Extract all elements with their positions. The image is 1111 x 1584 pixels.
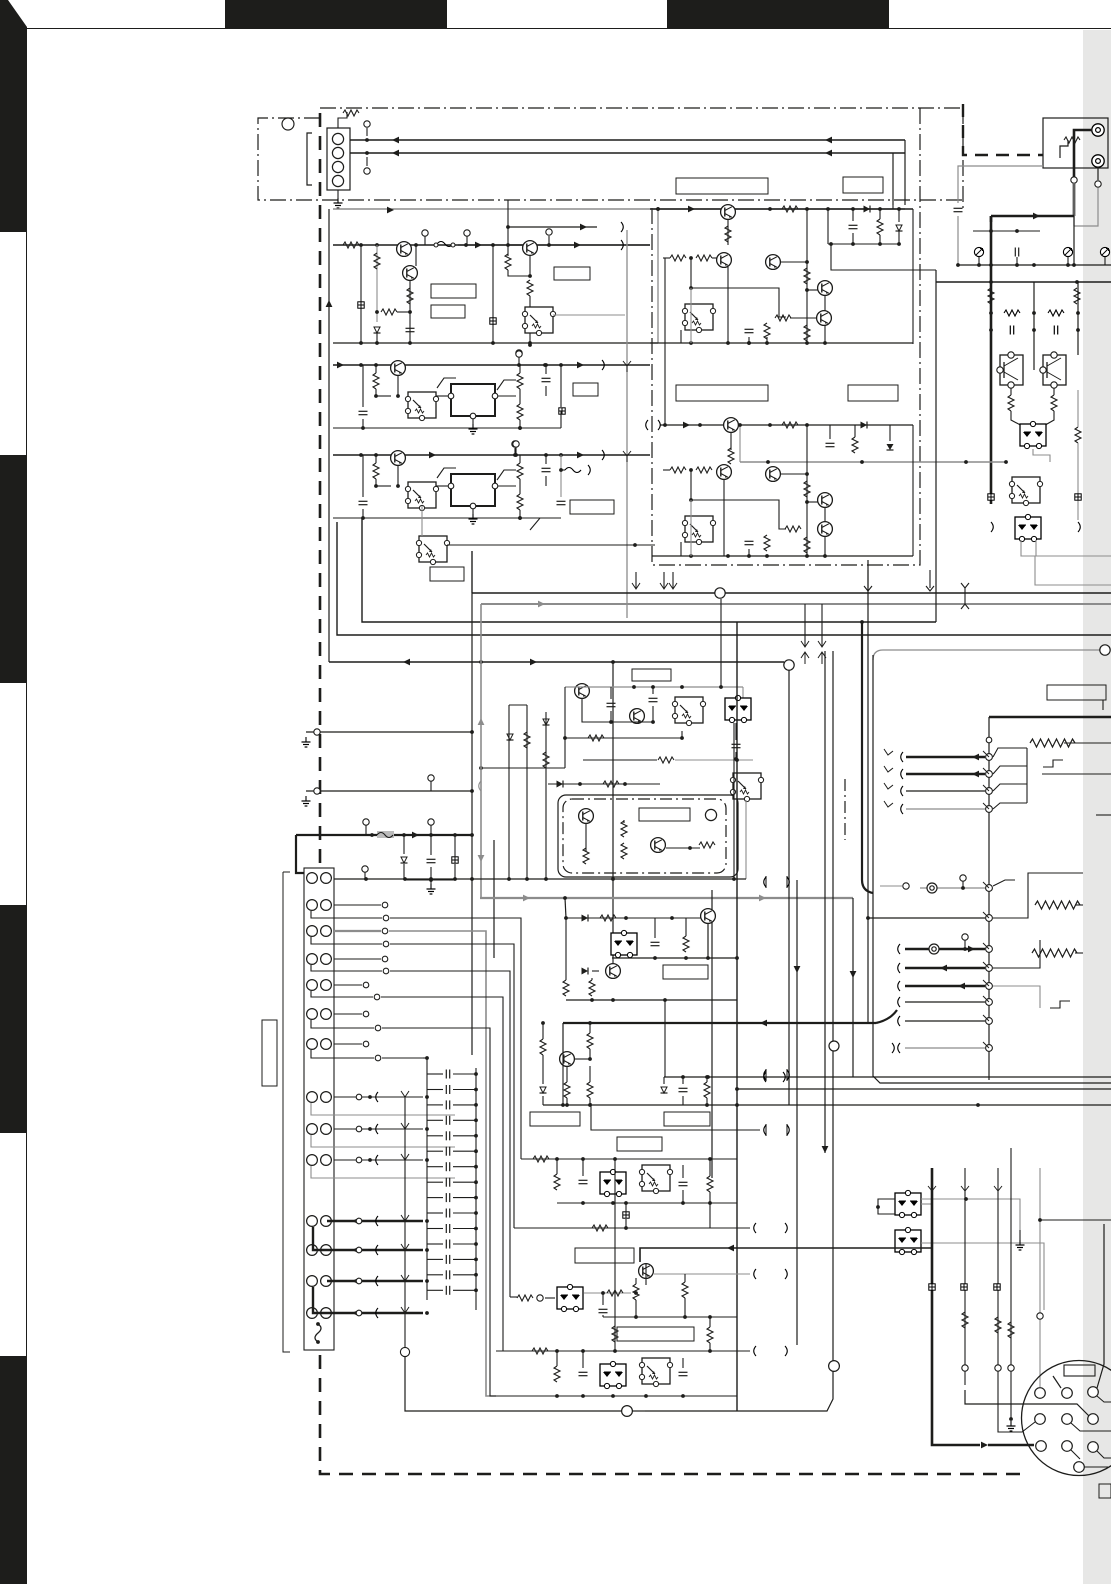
top-right net rail bbox=[958, 264, 1111, 266]
bold wire from J1 bbox=[1074, 130, 1092, 216]
CN2 squiggle bbox=[315, 1324, 321, 1342]
step symbol top bbox=[1043, 760, 1063, 767]
opto U1 bbox=[522, 307, 555, 336]
gnd line y791 bbox=[302, 796, 311, 806]
servo box top bbox=[873, 650, 1100, 660]
net row3b bbox=[311, 937, 382, 944]
transistor Q22 bbox=[639, 1264, 654, 1279]
net DE bbox=[584, 1292, 631, 1294]
label box L14b bbox=[664, 1112, 710, 1126]
rail y1317 bbox=[603, 1316, 737, 1318]
Y hops x405 bbox=[401, 1091, 409, 1102]
net row7b bbox=[311, 1050, 374, 1058]
diode D2 bbox=[864, 206, 871, 213]
step symbol bbox=[1050, 1001, 1070, 1008]
bus right arrows bbox=[825, 137, 832, 144]
dpair DB bbox=[895, 1227, 921, 1254]
cap C22 bbox=[745, 329, 754, 332]
feed terminals bbox=[363, 819, 369, 825]
diode D13 bbox=[543, 719, 550, 725]
res R33 bbox=[670, 467, 686, 473]
bold pin feed r11 bbox=[327, 1220, 423, 1222]
coil R70b bbox=[1030, 739, 1075, 747]
edge marks bbox=[1096, 814, 1111, 816]
res R45 bbox=[517, 463, 523, 479]
CN2 pin pair row 2 bbox=[307, 900, 318, 911]
edge rail line bbox=[1083, 872, 1111, 874]
transistor Q6 bbox=[766, 255, 781, 270]
gnd near DIN bbox=[1009, 1417, 1013, 1421]
rail arrow2 bbox=[574, 242, 581, 249]
res R13 bbox=[505, 254, 511, 270]
res R66 bbox=[540, 1039, 546, 1055]
net DA right bbox=[921, 1199, 1020, 1230]
transistor Q10 bbox=[717, 465, 732, 480]
dash-dot rounded box mid-left bbox=[558, 795, 738, 877]
rail gap marks bbox=[646, 420, 648, 430]
label box L4 bbox=[676, 178, 768, 194]
terminal pair below jack box bbox=[1071, 177, 1077, 183]
CN2 pin pair row 14 bbox=[307, 1308, 318, 1319]
CN2 pin pair row 5 bbox=[307, 980, 318, 991]
center vert x862 bbox=[861, 622, 863, 880]
cluster1 bottom rail bbox=[333, 342, 658, 344]
row y313 res b bbox=[1048, 310, 1064, 316]
dash-dot box2 frame bbox=[652, 108, 920, 565]
c2 verticals bbox=[824, 295, 826, 311]
res R11 bbox=[343, 242, 359, 248]
page border top bbox=[26, 28, 1111, 30]
gnd line y732 bbox=[302, 737, 311, 747]
bold pin feed r14 bbox=[313, 1287, 423, 1313]
right hooks mid bbox=[993, 940, 1040, 968]
opto U5 bbox=[405, 482, 438, 511]
cap C43 bbox=[542, 468, 551, 471]
res R87 bbox=[554, 1366, 560, 1382]
transistor Q5 bbox=[717, 253, 732, 268]
zener Z5 bbox=[507, 734, 514, 740]
cap C32 bbox=[745, 541, 754, 544]
gray link to right bbox=[831, 244, 936, 270]
res R43 bbox=[517, 373, 523, 389]
osc circle bbox=[705, 809, 716, 820]
mid verticals bbox=[471, 551, 473, 593]
vert x710b bbox=[709, 1192, 711, 1228]
pot slash c3b bbox=[497, 380, 516, 390]
DIN pin 1 bbox=[1035, 1388, 1046, 1399]
row y330 cap a bbox=[1010, 326, 1013, 335]
diode D5 bbox=[887, 444, 894, 450]
Y hop c3 bbox=[623, 361, 631, 372]
terminal t1 bbox=[422, 230, 428, 236]
circle drop x722 bbox=[720, 599, 722, 687]
res R86 bbox=[707, 1327, 713, 1343]
varistor a bbox=[974, 247, 983, 256]
transistor Q20 bbox=[701, 909, 716, 924]
res v1 bbox=[988, 288, 994, 304]
wire J2 down bbox=[1097, 167, 1099, 180]
fuse F2 bbox=[377, 831, 394, 838]
mid rail y604 bbox=[481, 603, 1111, 605]
label box L16 bbox=[575, 1248, 634, 1263]
terminal y444 bbox=[513, 441, 519, 447]
cluster2 top rail bbox=[650, 208, 913, 210]
c2b verticals bbox=[824, 507, 826, 522]
opto U8 bbox=[730, 773, 763, 802]
wire c2b bbox=[691, 470, 786, 529]
cluster2 bottom rail bbox=[650, 342, 913, 344]
registration bar left segment 2 bbox=[0, 455, 27, 683]
hooks right top bbox=[993, 748, 1027, 757]
pin stub y1021 bbox=[905, 1020, 985, 1022]
dash-dot frame top bbox=[320, 107, 963, 109]
connector CN601 pin 2 bbox=[332, 147, 343, 158]
res R57 bbox=[524, 732, 530, 748]
registration bar top segment 1 bbox=[225, 0, 447, 28]
block box bbox=[645, 1150, 833, 1411]
RCA jack J2 bbox=[1092, 155, 1104, 167]
mid rail y622 bbox=[362, 518, 936, 622]
rail y898 bold bbox=[480, 897, 853, 899]
col ends bbox=[991, 522, 993, 532]
nets capladder rows bbox=[311, 1103, 455, 1115]
terminal y354 bbox=[516, 351, 522, 357]
opto DD bbox=[639, 1165, 672, 1194]
cap mid bbox=[1015, 248, 1018, 257]
terminal t3 bbox=[546, 229, 552, 235]
label box L14c bbox=[617, 1137, 662, 1151]
jack box bbox=[1043, 118, 1108, 168]
transistor Q2 bbox=[403, 266, 418, 281]
transistor Q15 bbox=[391, 451, 406, 466]
center vert x789 bbox=[788, 670, 790, 1105]
CN2 pin pair row 7 bbox=[307, 1039, 318, 1050]
pin stub y1048 bbox=[905, 1047, 985, 1049]
opto U3 bbox=[682, 516, 715, 545]
vert x563 mid bbox=[562, 1023, 564, 1105]
cap ladder verticals bbox=[426, 1058, 428, 1300]
center rail y1077 bbox=[664, 1076, 1111, 1078]
diode D4 bbox=[861, 422, 868, 429]
transistor Q7b bbox=[818, 281, 833, 296]
cap C81 bbox=[679, 1182, 688, 1185]
osc sub rail bbox=[582, 699, 653, 722]
label box L3 bbox=[554, 267, 590, 280]
res R56 bbox=[658, 757, 674, 763]
registration bar top segment 2 bbox=[667, 0, 889, 28]
transistor Q9 bbox=[724, 418, 739, 433]
res v2 bbox=[1074, 288, 1080, 304]
CN601 top lead with ferrite bbox=[338, 112, 347, 128]
wire dpair down bbox=[1033, 449, 1050, 462]
osc wires bbox=[585, 823, 587, 852]
vert x658 c1 bbox=[657, 209, 659, 343]
Q3 chain bbox=[529, 255, 531, 276]
res R85b bbox=[682, 1282, 688, 1298]
gnd c4 bbox=[472, 509, 474, 514]
label right small bbox=[1099, 1484, 1111, 1498]
CN2 pin pair row 3 bbox=[307, 926, 318, 937]
label box L2 bbox=[431, 305, 465, 318]
transistor Q12 bbox=[818, 493, 833, 508]
diode D14 bbox=[582, 915, 589, 922]
xsq marks bbox=[988, 494, 994, 500]
ground below CN601 bbox=[337, 190, 339, 198]
zener X1 bbox=[623, 1212, 629, 1218]
RCA jack J1 bbox=[1092, 124, 1104, 136]
transistor Q19 bbox=[651, 838, 666, 853]
diode D11 bbox=[401, 857, 408, 863]
bold feed y835 bbox=[296, 834, 472, 836]
dpair DF bbox=[600, 1361, 626, 1388]
dpair D15 bbox=[611, 930, 637, 957]
mid rail y593 bbox=[472, 592, 1111, 594]
transistor Q22c bbox=[560, 1052, 575, 1067]
mid vert x613 bbox=[612, 662, 614, 958]
dpair DA bbox=[895, 1190, 921, 1217]
res R61 bbox=[600, 915, 616, 921]
center vert x833 bbox=[832, 651, 834, 1150]
power transistor Q8 box bbox=[1043, 355, 1066, 385]
zener Z6 bbox=[540, 1087, 547, 1093]
thin left margin line bbox=[283, 872, 290, 1352]
main rail1 y245 bbox=[333, 244, 650, 246]
tails y593 bbox=[635, 572, 637, 588]
pin stub bold y757 bbox=[906, 756, 985, 759]
DIN pin 7 bbox=[1036, 1441, 1047, 1452]
cap C57 bbox=[732, 744, 741, 747]
label box L8 bbox=[573, 383, 598, 396]
wires into DIN a bbox=[965, 1390, 1089, 1416]
vert w3 bbox=[1010, 1148, 1012, 1400]
right drop c2 bbox=[912, 209, 914, 344]
opto U6 bbox=[416, 536, 449, 565]
diode D3 bbox=[896, 225, 903, 231]
bus wire R-ch bbox=[350, 152, 905, 154]
res R70 bbox=[704, 1082, 710, 1098]
vert x734 bbox=[733, 723, 735, 879]
gray rail y462 bbox=[740, 461, 1006, 463]
cluster2b bottom rail bbox=[652, 555, 913, 557]
big junction circle bbox=[622, 1406, 633, 1417]
rail y918c bbox=[566, 917, 701, 919]
xsq F3 bbox=[452, 857, 458, 863]
pin stub wire y918 bbox=[868, 917, 985, 919]
long rail y282 bbox=[936, 281, 1111, 283]
res R83 bbox=[554, 1174, 560, 1190]
xsq c3 bbox=[559, 408, 565, 414]
gray wire from jack box left bbox=[958, 166, 1043, 203]
rail y879 bbox=[334, 878, 746, 880]
label box L5 bbox=[843, 177, 883, 193]
mount hole circle bbox=[282, 118, 294, 130]
c2b right vert bbox=[912, 425, 914, 556]
pot slash c4a bbox=[437, 468, 456, 478]
fork stubs x805 x822 bbox=[804, 604, 806, 646]
lower rail y425 bbox=[660, 424, 913, 426]
brk pairs center2 bbox=[765, 1069, 767, 1081]
pin stub y809 gray bbox=[906, 808, 985, 810]
center rail y1105 bbox=[543, 1104, 1111, 1106]
transistor Q18 bbox=[579, 809, 594, 824]
center vert x825 bbox=[824, 651, 826, 1153]
terminal y353 bbox=[516, 350, 522, 356]
CN2 pin pair row 13 bbox=[307, 1276, 318, 1287]
pin stub bold y774 bbox=[906, 773, 985, 776]
hybrid IC block2 bbox=[451, 474, 495, 506]
transistor Q11 bbox=[766, 467, 781, 482]
rail y1203 bbox=[557, 1202, 737, 1204]
cap C51 bbox=[427, 859, 436, 862]
label box L9 bbox=[570, 500, 614, 514]
rail y1228 bbox=[514, 1227, 750, 1229]
gnd feed bbox=[404, 879, 455, 881]
label box L17 bbox=[617, 1327, 694, 1341]
varistor c bbox=[1100, 247, 1109, 256]
cap C31 bbox=[826, 443, 835, 446]
transistor Q16 bbox=[575, 684, 590, 699]
net DB right bbox=[921, 1243, 1044, 1310]
center vert x712 bbox=[711, 890, 713, 1178]
mid wires c2 bbox=[691, 258, 786, 317]
wire right trunk2 bbox=[1073, 216, 1075, 265]
res R63 bbox=[683, 936, 689, 952]
CN2 pin pair row 12 bbox=[307, 1245, 318, 1256]
res R41 bbox=[373, 373, 379, 389]
pot slash c3a bbox=[437, 378, 456, 388]
wires into DIN b bbox=[998, 1390, 1035, 1432]
Y hop c4 bbox=[623, 451, 631, 462]
cap C56 bbox=[649, 698, 658, 701]
mid rail y662 bbox=[329, 661, 784, 663]
diode pair D8 bbox=[1015, 514, 1041, 541]
row y313 res a bbox=[1004, 310, 1020, 316]
label box L12 bbox=[639, 808, 690, 821]
tall rect right bbox=[993, 873, 1083, 918]
res R31 bbox=[782, 422, 798, 428]
vert x683b bbox=[682, 1190, 684, 1203]
wire y1130 bbox=[591, 1103, 760, 1130]
CN2 stub wires bbox=[334, 904, 381, 906]
bus stub terminals bbox=[364, 121, 370, 127]
DIN pin 3 bbox=[1088, 1387, 1099, 1398]
cluster1 frame bbox=[333, 208, 905, 210]
net row3 bold bbox=[334, 930, 381, 932]
wires into DIN c bbox=[1053, 1376, 1061, 1388]
brk pairs center bbox=[765, 876, 767, 888]
pot slash c4b bbox=[497, 470, 516, 480]
opto IC1 bbox=[1009, 477, 1042, 506]
res R32 bbox=[852, 437, 858, 453]
label box L14a bbox=[530, 1112, 580, 1126]
emitter res Q8 bbox=[1053, 388, 1055, 395]
brk pairs center3 bbox=[765, 1124, 767, 1136]
pin stub y1002 bbox=[905, 1001, 985, 1003]
res R12 bbox=[381, 309, 397, 315]
sub wires c1 bbox=[376, 245, 378, 322]
center rail y1023 bold bbox=[563, 1022, 876, 1024]
xsq bottom bbox=[929, 1284, 935, 1290]
varistor b bbox=[1063, 247, 1072, 256]
res R69 bbox=[587, 1082, 593, 1098]
thin net r9 bbox=[334, 1128, 423, 1130]
junction Y x965 bbox=[964, 588, 966, 604]
res R67 bbox=[587, 1033, 593, 1049]
right page gray strip bbox=[1083, 30, 1111, 1584]
pin stub shield1 bbox=[920, 887, 985, 889]
vert w2 bbox=[997, 1168, 999, 1390]
cap C83 bbox=[679, 1372, 688, 1375]
DIN pin 9 bbox=[1088, 1442, 1099, 1453]
DIN pin 8 bbox=[1062, 1441, 1073, 1452]
vert x565 osc bbox=[564, 687, 566, 768]
mid rail y635 bbox=[337, 522, 1111, 635]
vert x665 bbox=[664, 258, 666, 425]
wire cont bbox=[632, 1410, 645, 1412]
bracket left of CN601 bbox=[307, 133, 312, 185]
DIN pin 6 bbox=[1088, 1414, 1099, 1425]
dpair D10 bbox=[725, 695, 751, 722]
ladder top hook bbox=[425, 1056, 429, 1060]
brk y1274 bbox=[754, 1269, 756, 1279]
opto U10 bbox=[639, 1358, 672, 1387]
res R34 bbox=[764, 535, 770, 551]
vert x472 bbox=[471, 551, 473, 1055]
label box L6 bbox=[676, 385, 768, 401]
dash-dot vertical right of top block bbox=[962, 108, 964, 208]
hybrid IC block1 bbox=[451, 384, 495, 416]
center vert x853 bbox=[852, 898, 854, 1077]
rail y1351 bbox=[496, 1350, 750, 1352]
cap C63 bbox=[679, 1088, 688, 1091]
res R22 bbox=[877, 219, 883, 235]
bold trunk vertical bbox=[990, 216, 993, 504]
bold wire top-right trunk bbox=[991, 215, 1074, 218]
res R44 bbox=[517, 404, 523, 420]
connector CN601 outline bbox=[327, 128, 350, 190]
cluster1 left vert bbox=[328, 209, 330, 662]
vert x479 gray bbox=[480, 604, 482, 898]
CN2 pin pair row 11 bbox=[307, 1216, 318, 1227]
col wires bbox=[990, 282, 992, 355]
res R21 bbox=[782, 206, 798, 212]
wire y227 bbox=[508, 226, 597, 228]
net row5b bbox=[311, 991, 373, 997]
fuse F1 bbox=[437, 242, 453, 247]
label box L11 bbox=[632, 669, 671, 681]
vert x627 gray bbox=[626, 230, 628, 618]
center vert x665 bbox=[664, 1000, 666, 1077]
label box vertical left bbox=[262, 1020, 277, 1086]
c1 right wires bbox=[553, 314, 625, 316]
net row2 bbox=[311, 911, 382, 918]
hang rail bbox=[973, 230, 1040, 232]
cap C42 bbox=[542, 378, 551, 381]
vert x615b bbox=[614, 1159, 616, 1351]
registration bar top-left corner bbox=[0, 0, 27, 232]
transistor Q3 bbox=[523, 241, 538, 256]
dash-dot osc box bbox=[563, 799, 726, 873]
center rail y1000 bbox=[566, 999, 737, 1001]
osc wire y784 bbox=[548, 783, 660, 785]
opto U2 bbox=[682, 304, 715, 333]
center rail y1089 bbox=[737, 1088, 1111, 1090]
center vert x868 bbox=[867, 560, 869, 1023]
net row4b bbox=[311, 965, 382, 971]
connector CN2 outline bbox=[304, 868, 334, 1350]
cap C40 bbox=[359, 411, 368, 414]
res R64 bbox=[563, 980, 569, 996]
